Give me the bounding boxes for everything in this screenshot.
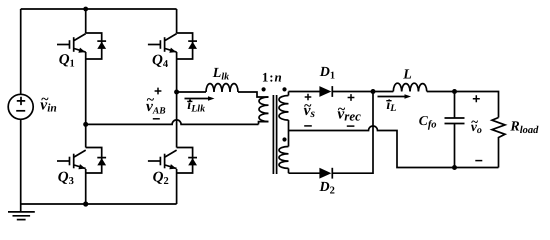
- wire primary bottom exit: [259, 122, 269, 125]
- wire left source column bottom: [20, 119, 22, 204]
- svg-text:~: ~: [304, 99, 312, 114]
- node rectifier output: [371, 89, 376, 94]
- svg-text:L: L: [402, 67, 412, 82]
- wire Q1 emitter to node A: [85, 52, 87, 124]
- wire D1 to junction: [333, 91, 373, 93]
- label i_Llk: [187, 98, 205, 114]
- wire Llk to primary: [238, 92, 269, 97]
- ground: [8, 204, 35, 220]
- node A: [83, 122, 88, 127]
- inductor L: [393, 83, 427, 91]
- wire D2 branch: [289, 172, 321, 174]
- label i_L: [386, 98, 396, 114]
- inductor Llk: [206, 84, 238, 92]
- capacitor Cfo: [445, 92, 465, 168]
- label v_rec plus: [348, 94, 355, 101]
- primary polarity dot: [262, 87, 266, 91]
- label v_AB plus: [155, 88, 162, 95]
- wire D2 to riser: [333, 92, 373, 174]
- transistor Q2: [148, 148, 197, 188]
- wire node A return (hops over B column): [86, 120, 259, 125]
- transformer core: [273, 95, 276, 174]
- wire L to Cfo to Rload: [427, 92, 499, 118]
- wire Q4 emitter through node B down to Q2: [176, 52, 178, 148]
- wire top DC bus: [21, 8, 177, 10]
- transistor Q1: [57, 33, 106, 70]
- svg-text:~: ~: [147, 93, 155, 108]
- arrow i_L: [378, 94, 412, 99]
- label v_rec: [337, 102, 361, 123]
- transistor Q3: [57, 148, 106, 188]
- label v_s: [304, 99, 316, 120]
- label v_s plus: [305, 94, 312, 101]
- label v_s minus: [304, 125, 312, 127]
- label v_o: [471, 114, 482, 136]
- diode D2: [319, 168, 335, 197]
- label v_AB: [146, 93, 166, 116]
- node bottom rail junction: [83, 201, 88, 206]
- label v_o minus: [475, 160, 482, 162]
- wire Q3 collector riser: [85, 124, 87, 147]
- svg-text:1:n: 1:n: [262, 69, 283, 84]
- wire Q4 collector riser: [176, 9, 178, 33]
- wire left source column top: [20, 9, 22, 94]
- wire Q2 emitter to rail: [176, 169, 178, 204]
- transistor Q4: [148, 33, 197, 70]
- transformer secondary top winding: [279, 92, 289, 131]
- label v_AB minus: [153, 118, 160, 120]
- source Vin: [8, 94, 33, 119]
- wire junction to L: [373, 91, 393, 93]
- wire Q1 collector riser: [85, 9, 87, 33]
- wire bottom rail: [21, 203, 177, 205]
- node Cfo bottom: [452, 165, 457, 170]
- wire node B to Llk: [177, 91, 206, 93]
- wire center tap (hops over riser): [289, 126, 455, 168]
- diode D1: [319, 65, 335, 97]
- svg-text:~: ~: [338, 102, 346, 117]
- label v_rec minus: [347, 125, 355, 127]
- wire secondary top to D1: [289, 91, 321, 93]
- wire Q3 emitter to rail: [85, 169, 87, 204]
- secondary bottom polarity dot: [282, 137, 286, 141]
- node top bus junction: [83, 7, 88, 12]
- svg-text:~: ~: [41, 93, 49, 108]
- transformer primary winding: [259, 97, 269, 122]
- wire output bottom rail: [455, 167, 499, 169]
- node B: [174, 90, 179, 95]
- label v_in: [40, 93, 56, 115]
- resistor Rload: [492, 118, 505, 168]
- secondary top polarity dot: [282, 87, 286, 91]
- arrow i_Llk: [185, 96, 215, 101]
- svg-text:~: ~: [471, 114, 478, 129]
- node Cfo top: [452, 89, 457, 94]
- label v_o plus: [473, 95, 480, 102]
- transformer secondary bottom winding: [279, 131, 289, 174]
